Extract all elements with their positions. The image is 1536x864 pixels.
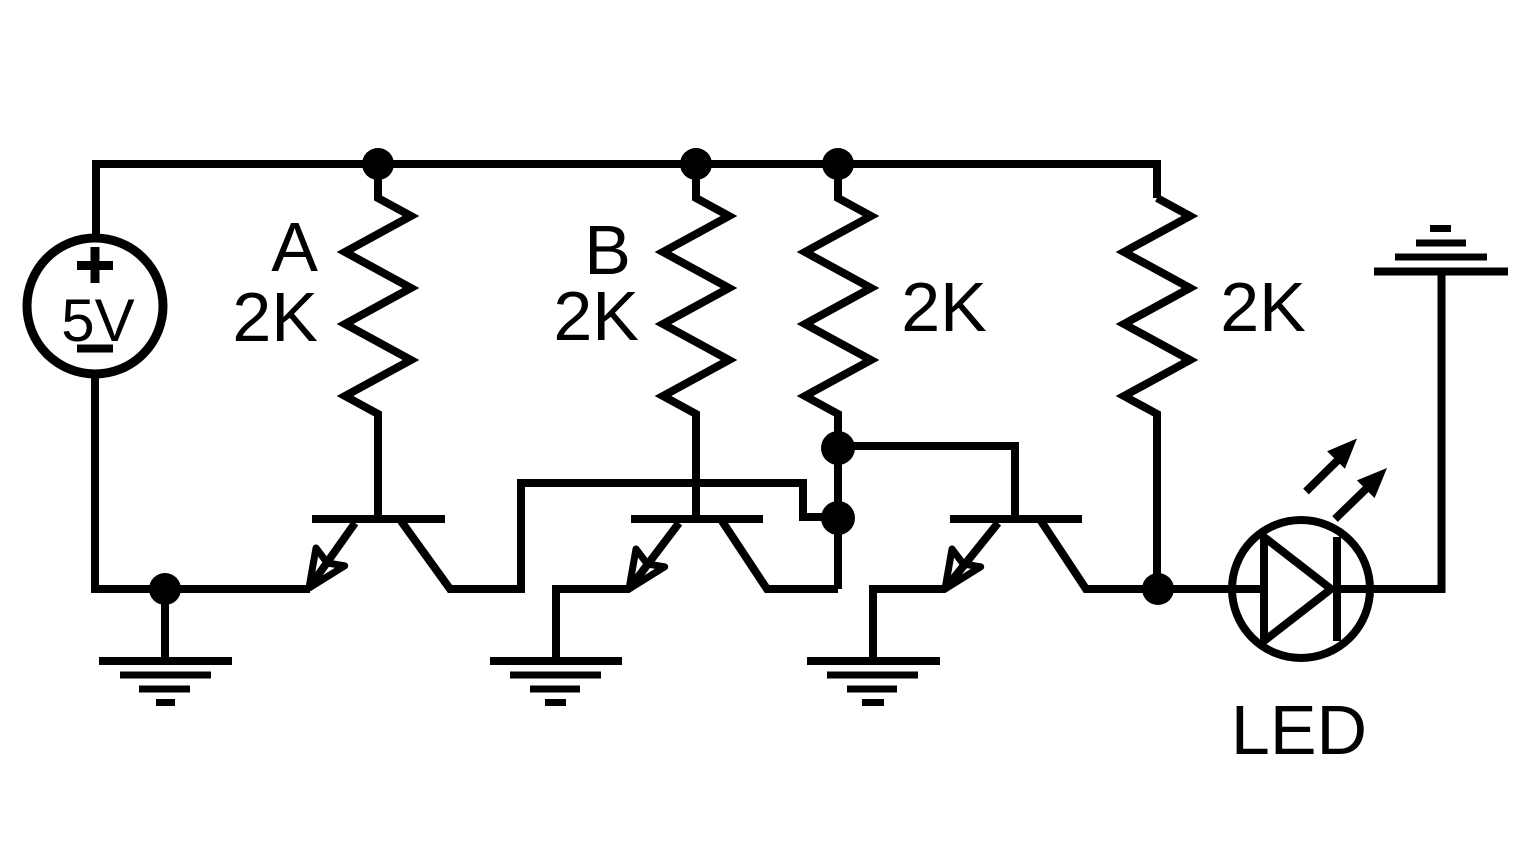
transistor Q3 base bar [950,515,1082,523]
wire top rail VCC [96,164,1157,238]
LED light arrow 1 [1306,439,1357,492]
wire LED anode [1158,585,1264,593]
resistor B 2K [663,164,729,523]
wire Q2 emitter to ground GND2 [556,589,630,661]
ground GND2 [490,661,622,703]
resistor 2K third [805,164,871,589]
ground GND4 inverted [1374,229,1508,272]
LED D1 triangle [1264,537,1331,641]
svg-text:5V: 5V [61,287,134,354]
svg-text:2K: 2K [901,268,987,346]
transistor Q1 base bar [312,515,445,523]
LED D1 cathode bar [1333,537,1341,641]
svg-text:A: A [271,208,318,286]
transistor Q1 emitter [309,523,355,588]
transistor Q2 base bar [631,515,763,523]
junction dot node R3-cross [821,431,855,465]
junction dot rail-A [362,148,394,180]
V1 plus terminal mark [77,247,113,283]
transistor Q3 emitter arrowhead [945,549,981,589]
LED D1 circle [1232,520,1370,658]
junction dot LED node [1142,573,1174,605]
wire LED cathode to inverted ground [1337,271,1442,589]
svg-text:LED: LED [1231,691,1367,769]
wire V1 bottom to ground rail [95,374,310,589]
resistor 2K fourth [1124,198,1190,589]
transistor Q2 emitter [629,523,679,589]
junction dot rail-R3 [822,148,854,180]
wire cross-coupling node to Q3 base [838,446,1015,523]
transistor Q3 emitter [945,523,998,589]
svg-text:2K: 2K [232,278,318,356]
wire Q1 collector to node B2 [401,483,838,589]
LED light arrow 2 [1335,468,1387,519]
transistor Q1 emitter arrowhead [309,548,345,588]
svg-text:2K: 2K [553,277,639,355]
ground GND1 [99,589,232,703]
voltage source V1 5V [27,238,163,374]
ground GND3 [807,661,940,703]
wire Q3 emitter to ground GND3 [873,589,946,661]
resistor A 2K [345,164,411,523]
wire Q2 collector to node [722,521,838,589]
svg-text:2K: 2K [1220,268,1306,346]
junction dot node R3-Q1 [821,501,855,535]
V1 minus terminal mark [77,345,113,353]
junction dot rail-B [680,148,712,180]
wire Q3 collector to LED node [1041,521,1158,589]
transistor Q2 emitter arrowhead [629,549,665,589]
junction dot ground rail [149,573,181,605]
